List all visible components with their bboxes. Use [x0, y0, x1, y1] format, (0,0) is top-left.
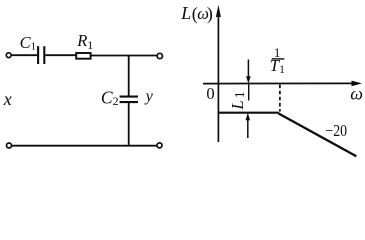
svg-text:): )	[207, 3, 213, 24]
svg-text:L: L	[180, 3, 191, 23]
svg-text:C1: C1	[20, 33, 37, 53]
svg-text:y: y	[144, 88, 154, 105]
svg-text:−20: −20	[325, 122, 347, 140]
svg-text:x: x	[3, 89, 12, 109]
svg-text:0: 0	[206, 84, 214, 103]
svg-text:R1: R1	[76, 31, 93, 52]
svg-text:C2: C2	[101, 88, 119, 109]
svg-text:ω: ω	[350, 84, 363, 104]
svg-text:1: 1	[233, 91, 248, 98]
svg-text:L: L	[228, 100, 247, 110]
